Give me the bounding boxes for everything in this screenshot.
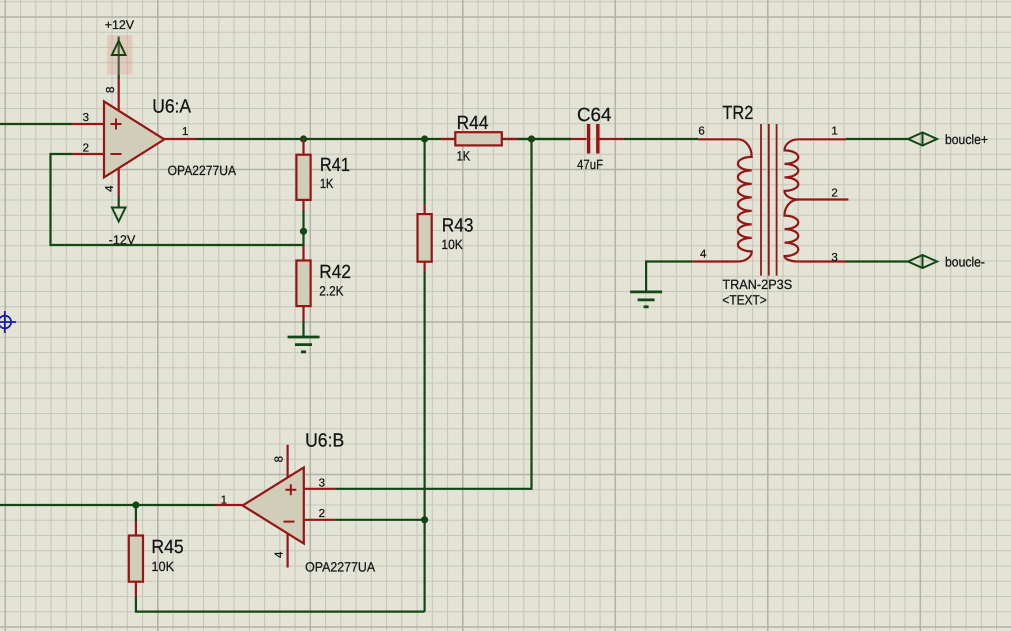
pin stub R44 left	[441, 138, 455, 140]
pin 4 stub U6:B	[287, 534, 289, 568]
resistor R43	[418, 214, 432, 262]
svg-text:2: 2	[83, 143, 89, 155]
ground below R42	[288, 337, 320, 352]
wire C64 to TR2 pin6	[624, 138, 698, 140]
resistor R41	[296, 155, 310, 200]
svg-text:3: 3	[83, 112, 89, 124]
wire R43 bottom down to feedback bus	[424, 272, 426, 612]
svg-text:2.2K: 2.2K	[319, 283, 343, 298]
U6:B plus symbol	[285, 484, 296, 495]
U6:B minus symbol	[284, 521, 295, 523]
svg-text:8: 8	[105, 87, 117, 93]
svg-text:1: 1	[221, 494, 227, 506]
pin 1 stub U6:A output	[164, 138, 196, 140]
transformer TR2 primary winding	[738, 139, 752, 261]
resistor R45	[129, 536, 143, 582]
pin 3 stub U6:B	[304, 488, 335, 490]
pin stub R44 right	[502, 138, 518, 140]
svg-text:3: 3	[319, 478, 325, 490]
wire rail down to R43	[424, 139, 426, 204]
pin stub R43 bottom	[424, 262, 426, 272]
wire U6:A pin3 input from left edge	[0, 123, 72, 125]
svg-text:TR2: TR2	[722, 103, 753, 124]
pin stub C64 right	[599, 138, 624, 140]
svg-text:R43: R43	[442, 215, 474, 236]
svg-text:-12V: -12V	[109, 233, 136, 247]
wire U6:B pin2 to vertical bus	[335, 519, 425, 521]
pin stub R42 bottom	[302, 306, 304, 321]
svg-text:boucle+: boucle+	[945, 132, 988, 147]
resistor R42	[296, 261, 310, 307]
pin stub R42 top	[302, 246, 304, 261]
svg-text:4: 4	[104, 185, 116, 192]
svg-text:+12V: +12V	[105, 18, 135, 32]
node junction pin2 bus	[421, 516, 428, 523]
wire main output rail	[197, 138, 572, 140]
pin stub R41 bottom	[302, 200, 304, 210]
wire R45 bottom feedback bus	[136, 597, 425, 612]
wire R42 bottom to ground	[302, 321, 304, 337]
svg-text:boucle-: boucle-	[945, 255, 985, 270]
svg-text:R42: R42	[319, 262, 351, 283]
terminal boucle+	[908, 133, 937, 146]
pin stub R43 top	[424, 204, 426, 214]
node junction U6:B pin3 branch	[528, 135, 535, 142]
node junction R41 top	[300, 135, 307, 142]
svg-text:1K: 1K	[457, 148, 471, 163]
transformer TR2 secondary winding lower	[785, 200, 799, 262]
svg-text:4: 4	[274, 551, 286, 558]
wire TR2 pin3 to boucle- terminal	[846, 260, 908, 262]
node junction R43 branch on rail	[421, 135, 428, 142]
pin stub C64 left	[571, 138, 587, 140]
svg-text:OPA2277UA: OPA2277UA	[305, 560, 375, 575]
op-amp U6:A body	[104, 101, 164, 177]
wire pin8 to +12V arrow	[118, 37, 120, 80]
wire R44 to C64 node	[518, 138, 571, 140]
svg-text:1K: 1K	[320, 176, 334, 191]
wire pin4 to -12V arrow	[118, 197, 120, 209]
svg-text:R44: R44	[457, 113, 489, 134]
svg-text:2: 2	[831, 188, 837, 200]
svg-text:6: 6	[698, 126, 704, 138]
+12V highlight box	[107, 35, 133, 75]
pin 2 stub U6:B	[304, 519, 335, 521]
pin 1 stub U6:B output	[215, 504, 243, 506]
power symbol +12V arrow	[112, 41, 126, 55]
wire U6:B pin3 branch from rail	[335, 139, 532, 489]
pin 2 stub TR2 (open)	[798, 198, 848, 200]
svg-text:3: 3	[831, 252, 837, 264]
pin 6 stub TR2	[698, 138, 738, 140]
pin 8 stub U6:B	[287, 445, 289, 478]
wire R41 bottom to R42	[302, 210, 304, 246]
svg-text:U6:A: U6:A	[152, 96, 191, 117]
node junction between R41 and R42	[300, 228, 307, 235]
wire U6:A pin2 feedback: left + down + across to R41/R42 node	[51, 154, 303, 245]
svg-text:2: 2	[319, 508, 325, 520]
wire R45 top	[135, 505, 137, 521]
svg-text:OPA2277UA: OPA2277UA	[168, 163, 237, 178]
ground below TR2 pin4	[630, 292, 662, 307]
pin 3 stub TR2	[798, 260, 846, 262]
terminal boucle-	[908, 255, 937, 268]
svg-text:10K: 10K	[151, 559, 174, 574]
transformer TR2 core	[761, 124, 777, 276]
pin 1 stub TR2	[798, 138, 846, 140]
wire TR2 pin4 to ground	[646, 262, 692, 292]
pin stub R45 bottom	[135, 582, 137, 597]
svg-text:1: 1	[831, 126, 837, 138]
U6:A plus symbol	[111, 119, 122, 130]
resistor R44	[455, 132, 502, 145]
wire U6:B output to left edge	[0, 504, 215, 506]
node junction R45 top	[132, 501, 139, 508]
pin 4 stub TR2	[692, 260, 738, 262]
svg-text:U6:B: U6:B	[305, 430, 344, 451]
pin 8 stub U6:A	[118, 79, 120, 111]
power symbol -12V arrow	[112, 208, 126, 222]
svg-text:R45: R45	[151, 537, 183, 558]
op-amp U6:B body	[243, 468, 304, 544]
wire TR2 pin1 to boucle+ terminal	[846, 138, 908, 140]
pin 2 stub U6:A	[72, 153, 104, 155]
svg-text:R41: R41	[320, 155, 350, 176]
svg-text:8: 8	[274, 456, 286, 462]
origin marker	[0, 311, 16, 333]
pin stub R41 top	[302, 139, 304, 155]
svg-text:TRAN-2P3S: TRAN-2P3S	[722, 277, 792, 292]
U6:A minus symbol	[111, 153, 122, 155]
pin stub R45 top	[135, 521, 137, 536]
svg-text:<TEXT>: <TEXT>	[722, 293, 766, 308]
svg-text:1: 1	[182, 126, 188, 138]
svg-text:C64: C64	[577, 105, 612, 126]
svg-text:47uF: 47uF	[577, 157, 603, 172]
pin 3 stub U6:A	[72, 123, 104, 125]
svg-text:10K: 10K	[441, 237, 462, 252]
svg-text:4: 4	[700, 249, 707, 261]
pin 4 stub U6:A	[118, 168, 120, 197]
transformer TR2 secondary winding upper	[785, 139, 799, 199]
capacitor C64	[587, 124, 600, 154]
